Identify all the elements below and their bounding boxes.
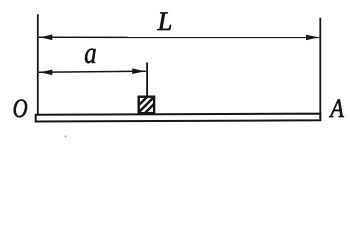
beam O-A bbox=[36, 114, 321, 122]
arrowhead L right bbox=[306, 35, 320, 41]
arrowhead a right bbox=[132, 68, 146, 74]
svg-text:L: L bbox=[157, 7, 173, 36]
svg-text:O: O bbox=[13, 95, 28, 124]
dimension line L bbox=[39, 36, 319, 38]
dimension line a bbox=[39, 71, 146, 72]
extension line right (at A) bbox=[319, 18, 321, 121]
extension line left (at O) bbox=[37, 14, 39, 115]
arrowhead a left bbox=[38, 70, 52, 76]
hatched block on beam bbox=[130, 94, 162, 117]
arrowhead L left bbox=[38, 35, 52, 41]
scan speck bbox=[65, 135, 67, 137]
svg-text:a: a bbox=[84, 36, 96, 70]
extension line at block centre bbox=[146, 63, 148, 97]
svg-text:A: A bbox=[329, 95, 345, 123]
